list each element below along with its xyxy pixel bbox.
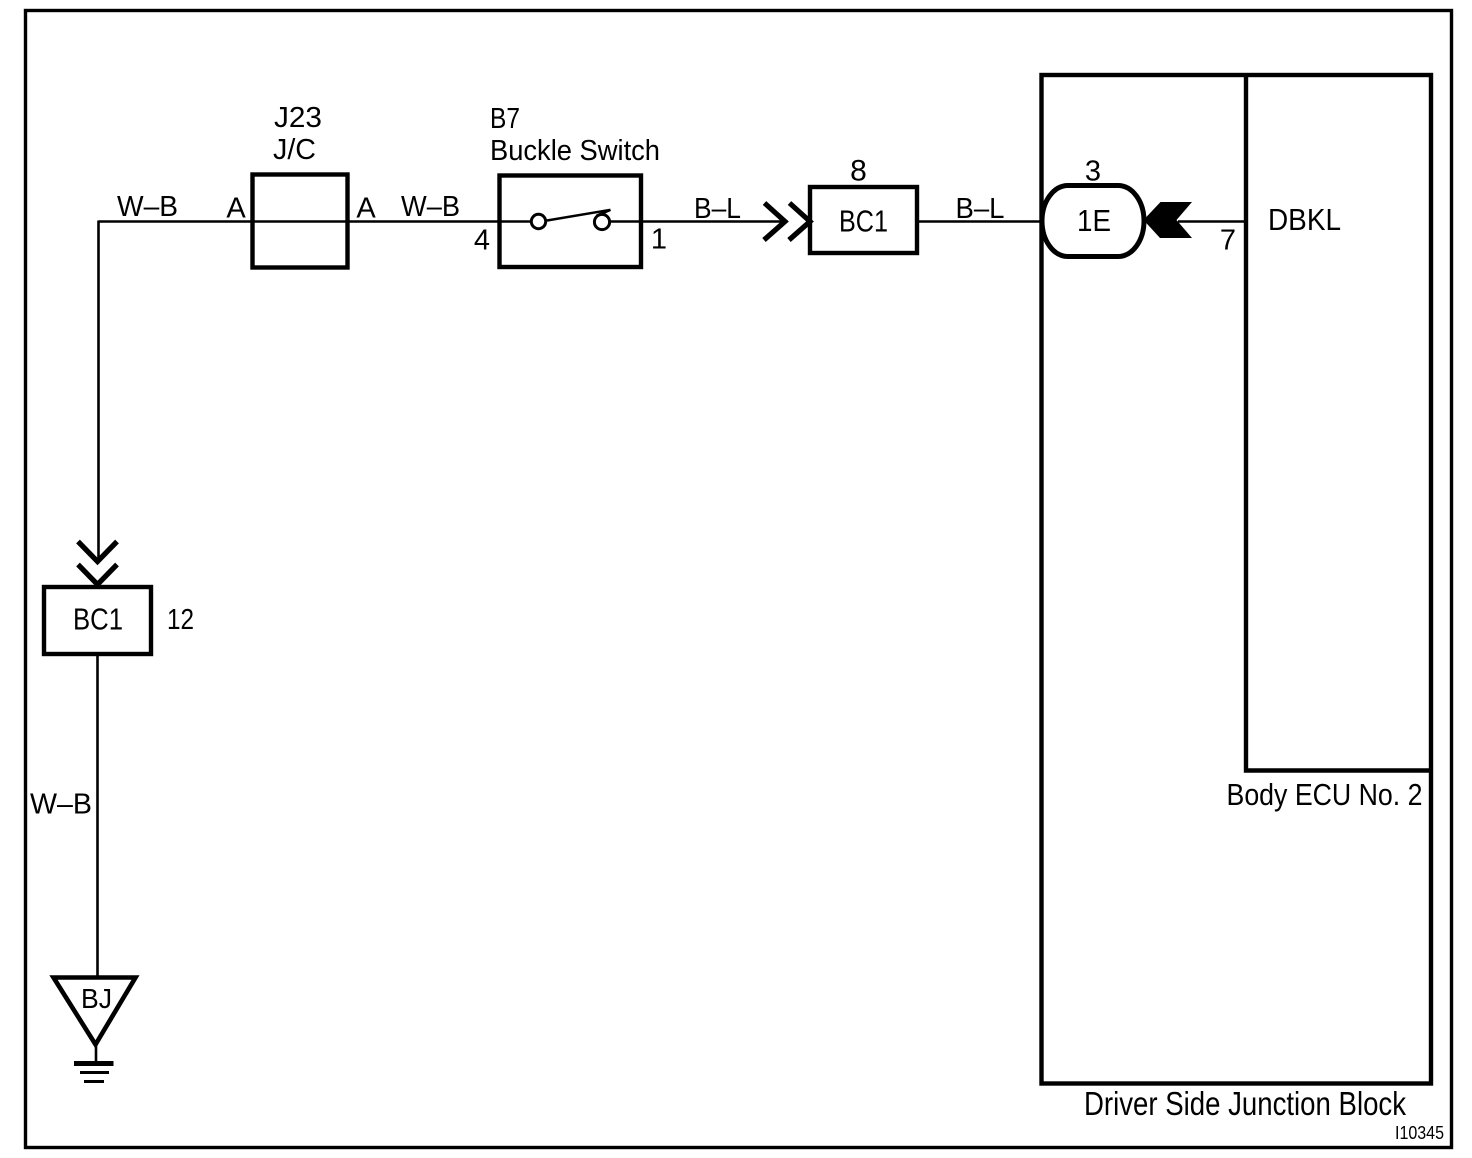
connector chevron 2 — [789, 203, 810, 240]
svg-text:4: 4 — [474, 225, 490, 257]
svg-text:W–B: W–B — [401, 191, 460, 223]
black arrow connector — [1144, 202, 1193, 238]
svg-text:A: A — [356, 193, 376, 225]
Driver Side Junction Block box — [1042, 75, 1432, 1084]
svg-text:Body ECU No. 2: Body ECU No. 2 — [1227, 777, 1423, 812]
connector BC1 (pin 12) — [44, 587, 151, 654]
Body ECU No. 2 box — [1246, 75, 1431, 771]
ground — [74, 1064, 114, 1082]
wire from triangle apex to ground — [95, 1045, 98, 1062]
svg-text:W–B: W–B — [117, 191, 178, 223]
svg-text:W–B: W–B — [30, 789, 92, 821]
connector chevron 1 — [764, 203, 785, 240]
svg-text:BC1: BC1 — [73, 602, 123, 637]
connector chevron down 1 — [78, 542, 117, 562]
svg-text:1E: 1E — [1077, 203, 1111, 238]
svg-text:12: 12 — [167, 604, 194, 636]
svg-text:J/C: J/C — [273, 134, 316, 166]
svg-text:Buckle Switch: Buckle Switch — [490, 135, 660, 167]
wire W-B to ground triangle — [96, 654, 99, 977]
junction connector J23 J/C — [253, 102, 348, 268]
svg-text:DBKL: DBKL — [1268, 202, 1341, 237]
svg-text:Driver Side Junction Block: Driver Side Junction Block — [1084, 1085, 1406, 1122]
buckle switch B7 — [490, 103, 660, 267]
wire W-B vertical drop on left — [97, 221, 100, 562]
svg-text:B–L: B–L — [956, 193, 1005, 225]
svg-text:B–L: B–L — [694, 193, 741, 225]
connector chevron down 2 — [78, 565, 117, 585]
connector 1E (pin 3) — [1042, 186, 1144, 257]
svg-text:BC1: BC1 — [839, 204, 888, 239]
ground triangle BJ — [54, 978, 136, 1045]
wire W-B horizontal from corner through J23 to switch contact — [99, 220, 532, 223]
svg-text:A: A — [226, 193, 246, 225]
svg-text:8: 8 — [850, 155, 867, 188]
svg-text:3: 3 — [1085, 156, 1101, 188]
svg-text:1: 1 — [651, 224, 667, 256]
connector BC1 (pin 8) — [810, 187, 917, 253]
svg-text:I10345: I10345 — [1395, 1123, 1444, 1143]
wire B-L from BC1 to 1E — [917, 220, 1042, 223]
svg-text:B7: B7 — [490, 103, 520, 135]
svg-text:BJ: BJ — [81, 983, 112, 1014]
svg-text:J23: J23 — [274, 102, 322, 134]
wire from arrow to Body ECU — [1178, 220, 1246, 223]
wire B-L from switch to connector chevrons — [610, 220, 784, 223]
svg-text:7: 7 — [1220, 225, 1236, 257]
